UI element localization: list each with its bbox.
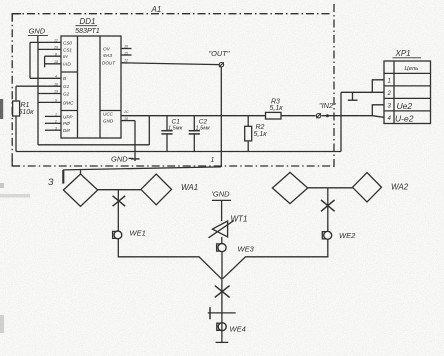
wire pin FAZ stub (121, 54, 132, 56)
element WT1 (209, 215, 248, 238)
wire pin B stub (30, 77, 61, 79)
wire pin O/IC stub (38, 101, 61, 103)
wire WE1 down and right (118, 239, 221, 279)
wire R1 top to G1 (15, 86, 17, 101)
wire WT1 to WE3 (221, 237, 223, 244)
ic left pin numbers (53, 39, 58, 131)
antenna WA2 diamond right (353, 173, 382, 202)
wire A after R3 to IN2 node (281, 115, 316, 117)
wire gnd rail to XP1 pin2 (341, 91, 384, 93)
scan smudge left edge (0, 99, 30, 333)
ground GND bottom label (111, 155, 140, 164)
wire feed from OUT vertical to WA1 terminal (63, 167, 221, 170)
antenna WA2 diamond left (272, 172, 307, 203)
wire pin G2 stub (38, 93, 61, 95)
wire WE3 down to V-point (221, 252, 223, 279)
label 583РТ1 (75, 26, 100, 35)
frame A1 dashed boundary (12, 4, 335, 170)
ground GND middle label (212, 190, 232, 201)
wire branch to XP1 pin1 (372, 80, 384, 93)
wire gnd pin vertical to tick (134, 121, 136, 161)
junction X on main vertical (215, 286, 230, 298)
wire WE2 down and left (223, 239, 328, 278)
wire ic GND pin stub (121, 120, 135, 122)
label A1 (151, 5, 162, 14)
socket WE3 (217, 244, 255, 254)
wire pin IS1 stub (38, 48, 61, 50)
socket WE4 (217, 323, 246, 334)
wire end bar (216, 341, 229, 343)
wire A long rail y115.7 from UCC (121, 115, 266, 117)
wire pin UPP stub (45, 115, 61, 117)
capacitor C1 (161, 116, 182, 152)
junction X on WA2 drop (321, 200, 335, 211)
wire gnd bar down to WT1 (221, 200, 223, 221)
wire vertical bus x38 long gnd bus (37, 42, 39, 144)
wire branch to XP1 pin3 (372, 105, 384, 116)
wire WA2 bar (308, 187, 353, 189)
wire gnd bus bar to pin CS0 (30, 41, 61, 43)
node 1 label (211, 157, 215, 164)
antenna WA1 diamond right (141, 174, 172, 205)
node "OUT" test point (209, 49, 230, 67)
wire vertical bus x44.6 (44, 56, 46, 64)
socket WE2 (322, 231, 356, 240)
wire pin PF stub (45, 122, 61, 124)
wire pin OV stub (121, 48, 132, 50)
capacitor C2 (189, 116, 210, 152)
wire WA1 bar (98, 189, 141, 191)
frame corner reinforcements (12, 14, 21, 166)
ground GND top-left (28, 27, 48, 43)
wire stub diamond apex to feed wire (80, 170, 82, 174)
wire main vertical below V-point (221, 278, 223, 343)
wire A from IN2 node to XP1 pin4 (322, 116, 384, 118)
label WA2 (391, 183, 409, 192)
wire pin IAD stub (45, 63, 61, 65)
resistor R1 (13, 101, 35, 116)
resistor R3 (266, 99, 284, 120)
ic right pin labels (102, 46, 116, 123)
wire pin G1 stub to R1 (16, 85, 61, 87)
ground tick near XP1 (348, 92, 358, 100)
wire WA1 drop (117, 190, 119, 231)
wire OUT vertical down to wire B (220, 67, 222, 167)
wire drop from wire A to sub-bus (148, 116, 150, 145)
junction X on WA1 drop (113, 196, 126, 206)
antenna WA1 diamond left (63, 174, 97, 206)
label DD1 (80, 17, 96, 26)
resistor R2 (245, 116, 268, 152)
wire B long bottom rail y151.5 (16, 151, 341, 153)
wire DOUT to OUT node (121, 63, 219, 65)
connector XP1 (384, 49, 431, 124)
wire WA2 drop (327, 188, 329, 232)
connector T-bar (208, 307, 236, 319)
wire vertical bus x30 to pin B (29, 42, 31, 78)
ic left pin labels (63, 40, 74, 133)
wire IAD hook (44, 64, 46, 68)
wire sub-bus y144.8 under IC (38, 144, 149, 146)
wire pin DN stub (45, 129, 61, 131)
pin 3 terminal at left (WA1 feed) (48, 170, 63, 187)
label WA1 (181, 183, 198, 192)
node "IN2" test point (316, 101, 336, 118)
wire B up to XP1 gnd rail (340, 92, 342, 151)
socket WE1 (113, 229, 146, 239)
wire pin IH stub (45, 55, 61, 57)
wire R1 bottom to wire B (15, 116, 17, 152)
ic right pin numbers (123, 45, 129, 121)
ic DD1 583РТ1 body (61, 36, 121, 138)
